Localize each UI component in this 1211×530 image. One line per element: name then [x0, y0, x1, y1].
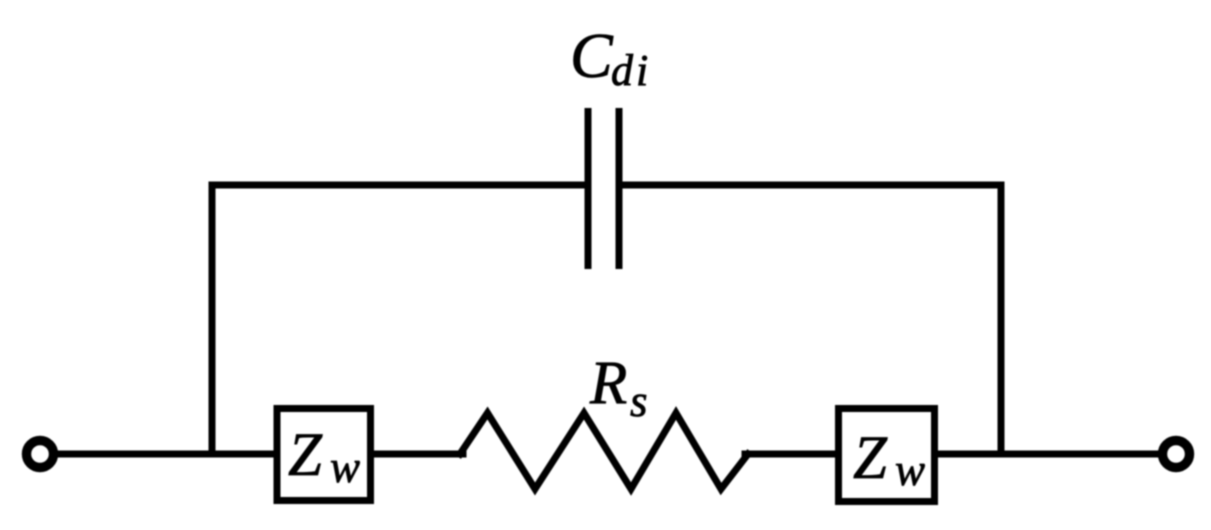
svg-text:w: w [895, 445, 925, 495]
capacitor C_di (left plate) [585, 108, 592, 269]
label C_di [570, 20, 651, 95]
svg-text:di: di [611, 46, 651, 95]
label Z_w (right) [853, 425, 925, 495]
svg-text:Z: Z [288, 422, 323, 489]
svg-text:Z: Z [853, 425, 888, 492]
box Z_w (left Warburg impedance element) [277, 409, 371, 501]
wire: resistor R_s to right Z_w [745, 451, 835, 458]
box Z_w (right Warburg impedance element) [839, 409, 935, 502]
terminal T2 (right) [1163, 441, 1190, 468]
label R_s [589, 350, 648, 426]
svg-text:R: R [589, 350, 627, 417]
svg-text:s: s [630, 376, 648, 426]
wire: right riser from top rail down to node B [998, 185, 1005, 454]
capacitor C_di (right plate) [616, 108, 623, 269]
wire: left riser from node A up to top rail [209, 185, 216, 454]
wire: top rail right segment from capacitor [619, 182, 1001, 189]
wire: left Z_w to resistor R_s [374, 451, 463, 458]
resistor R_s (zigzag) [460, 413, 748, 489]
wire: right Z_w to node B [938, 451, 1001, 458]
svg-text:C: C [570, 20, 614, 91]
wire: node B to right terminal [1001, 451, 1158, 458]
wire: left terminal to node A [58, 451, 273, 458]
terminal T1 (left) [27, 441, 54, 468]
wire: top rail left segment to capacitor [212, 182, 588, 189]
svg-text:w: w [330, 442, 360, 492]
label Z_w (left) [288, 422, 360, 492]
